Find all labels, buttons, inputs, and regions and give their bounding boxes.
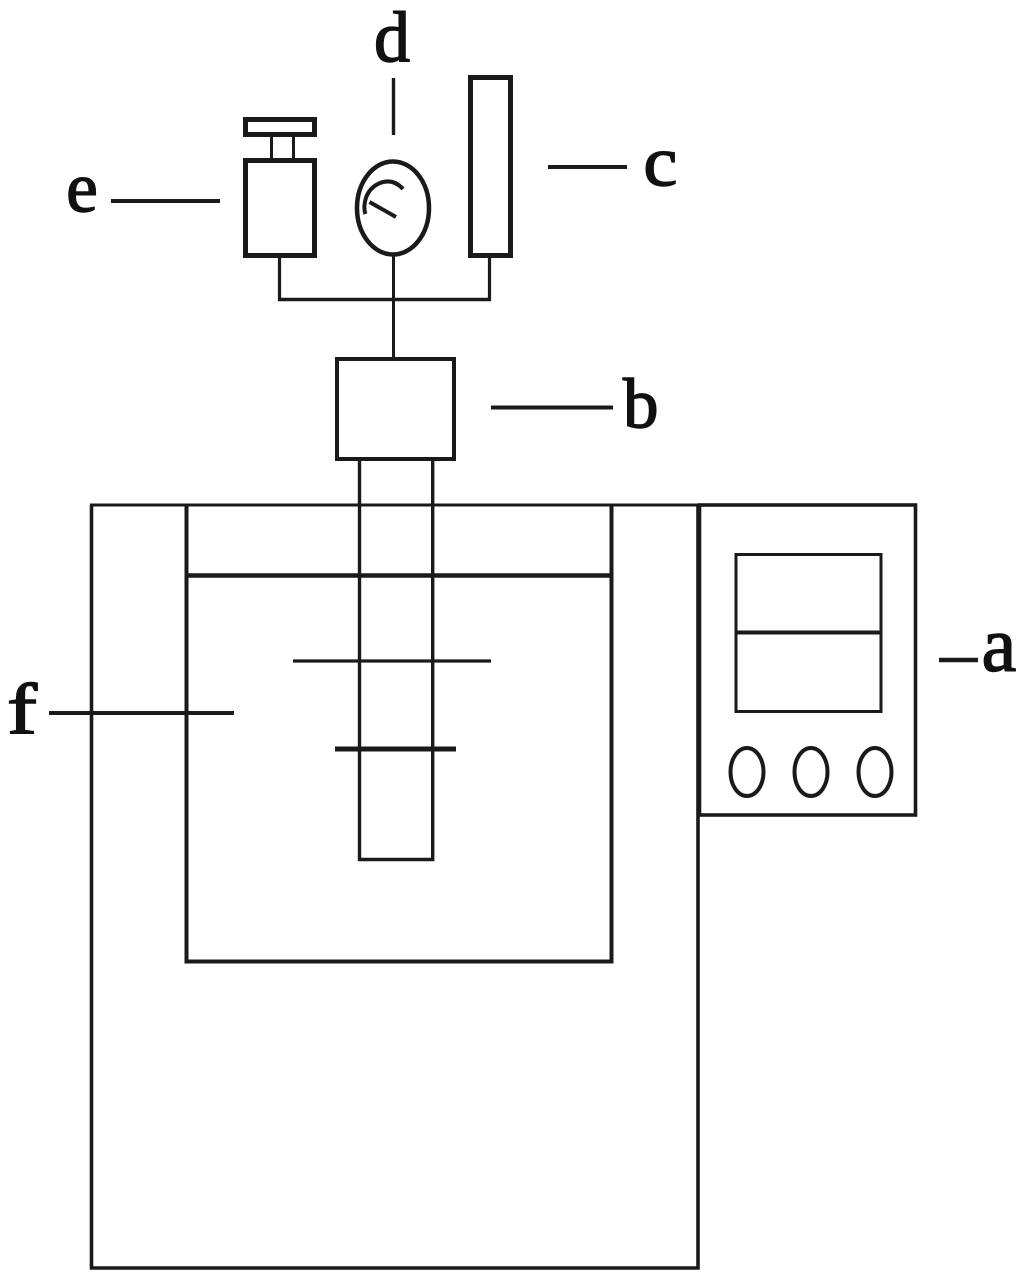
label f leader: [49, 711, 234, 715]
svg-text:e: e: [66, 149, 98, 227]
label e leader: [111, 199, 220, 203]
valve outlet wire: [278, 257, 281, 301]
label c leader: [548, 165, 627, 169]
manifold pipe wire: [278, 298, 491, 302]
svg-text:f: f: [7, 669, 37, 749]
gauge needle: [364, 181, 403, 217]
column c: [471, 78, 511, 256]
panel button 2: [795, 748, 828, 796]
valve e cap: [246, 120, 315, 135]
liquid level line: [185, 573, 612, 578]
gauge d dial: [357, 162, 429, 255]
valve e stem: [272, 137, 294, 158]
valve e body: [246, 161, 315, 256]
display window: [736, 555, 881, 712]
control panel a: [700, 505, 916, 815]
panel button 3: [859, 748, 892, 796]
column outlet wire: [488, 257, 491, 301]
label b leader: [491, 406, 613, 410]
svg-text:c: c: [643, 123, 677, 201]
label a leader: [939, 658, 978, 663]
inner vessel: [187, 505, 612, 962]
tank top edge: [90, 504, 916, 507]
display divider: [736, 631, 881, 635]
impeller blade lower: [335, 747, 456, 752]
motor box b: [337, 359, 454, 459]
svg-text:a: a: [982, 600, 1017, 687]
svg-text:b: b: [623, 365, 659, 443]
svg-text:d: d: [374, 0, 410, 77]
panel button 1: [731, 748, 764, 796]
gauge stem wire: [392, 256, 395, 359]
impeller blade upper: [293, 659, 491, 662]
outer tank body: [92, 505, 699, 1268]
stirrer tube: [360, 461, 433, 860]
label d leader: [392, 78, 395, 135]
